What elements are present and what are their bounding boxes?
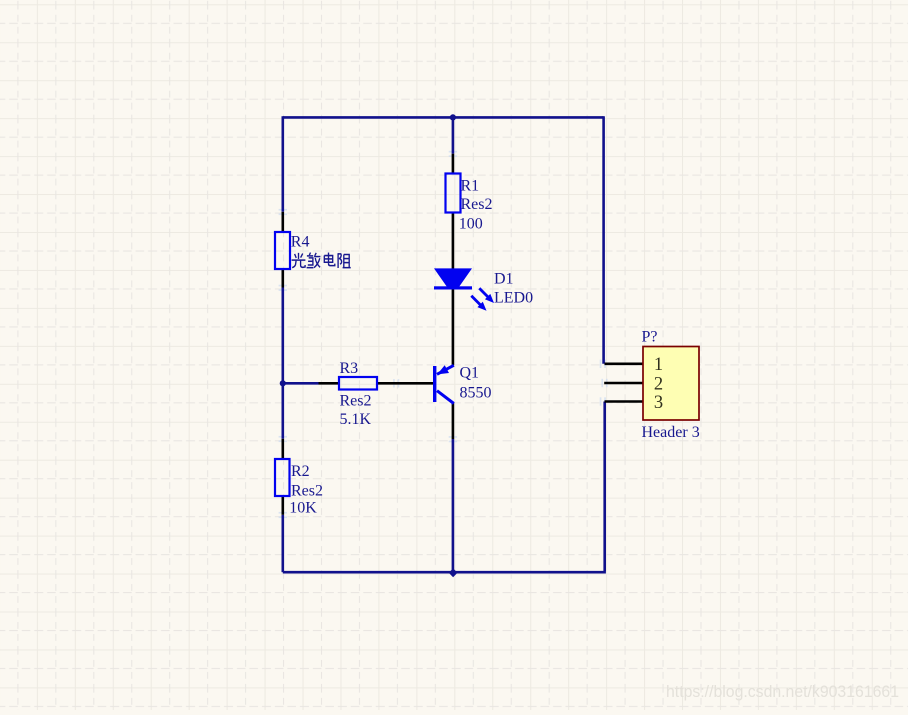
svg-text:LED0: LED0 — [494, 289, 533, 306]
resistor R2 body — [275, 459, 290, 496]
LED D1 light arrow 2 — [471, 296, 486, 311]
pin: R3 left — [319, 382, 340, 385]
svg-text:R4: R4 — [291, 234, 310, 251]
pin: header pin 2 wire — [604, 382, 643, 385]
svg-text:10K: 10K — [289, 500, 317, 517]
svg-text:8550: 8550 — [460, 385, 492, 402]
svg-text:https://blog.csdn.net/k9031616: https://blog.csdn.net/k903161661 — [666, 682, 899, 701]
wire: right upper vertical to header pin 1 — [602, 116, 605, 364]
wire: left vertical upper segment — [281, 116, 284, 212]
pin: header pin 3 wire — [605, 400, 644, 403]
resistor R1 body — [446, 174, 461, 213]
char 光 — [292, 253, 306, 268]
wire: middle vertical top (rail to R1) — [452, 117, 455, 153]
wire: right lower vertical from header pin 3 to bottom rail — [603, 402, 606, 572]
svg-text:P?: P? — [642, 328, 658, 345]
pin: R3 right + Q1 base — [377, 382, 434, 385]
junction dot at top rail / R1 — [450, 114, 456, 120]
LED D1 cathode bar — [434, 286, 472, 289]
pin: header pin 1 wire — [605, 362, 644, 365]
svg-text:D1: D1 — [494, 271, 514, 288]
svg-text:2: 2 — [654, 374, 663, 394]
header P? body — [643, 347, 699, 421]
pin: LED cathode to Q1 emitter — [452, 290, 455, 366]
wire: base branch from left rail to R3 — [283, 382, 319, 385]
svg-text:3: 3 — [654, 393, 663, 413]
wire: top horizontal VCC rail — [283, 116, 604, 119]
pin hotspot markers (faint) — [279, 151, 608, 518]
LED D1 light arrow 1 — [479, 288, 494, 303]
pin: Q1 collector — [452, 403, 455, 439]
svg-text:R2: R2 — [291, 463, 310, 480]
svg-text:1: 1 — [654, 355, 663, 375]
LED D1 triangle — [434, 268, 472, 289]
wire: left vertical middle segment — [281, 288, 284, 439]
pin: R4 bottom — [281, 269, 284, 288]
svg-text:Res2: Res2 — [340, 392, 372, 409]
resistor R4 body (photoresistor) — [275, 232, 290, 269]
wire: left vertical lower segment — [281, 515, 284, 572]
wire: middle vertical bottom (Q1 collector to bottom rail) — [452, 439, 455, 572]
transistor Q1 base bar — [433, 366, 436, 402]
transistor Q1 collector — [437, 391, 454, 404]
pin: R2 top — [281, 439, 284, 459]
char 敏 — [307, 253, 321, 268]
svg-text:Q1: Q1 — [460, 364, 480, 381]
char 电 — [324, 253, 335, 266]
junction dot at bottom rail / collector — [449, 568, 458, 577]
char 阻 — [338, 253, 351, 268]
junction dot at left rail / R3 branch — [280, 380, 286, 386]
svg-text:R1: R1 — [461, 178, 480, 195]
resistor R3 body — [339, 377, 377, 390]
pin: R1 bottom to LED anode — [452, 213, 455, 270]
svg-text:Res2: Res2 — [291, 482, 323, 499]
pin: R1 top — [452, 154, 455, 174]
svg-text:5.1K: 5.1K — [340, 411, 372, 428]
pin: R2 bottom — [281, 496, 284, 515]
svg-text:Header 3: Header 3 — [642, 424, 700, 441]
svg-text:R3: R3 — [340, 360, 359, 377]
svg-text:Res2: Res2 — [461, 196, 493, 213]
pin: R4 top — [281, 212, 284, 232]
wire: bottom horizontal rail — [283, 571, 606, 574]
transistor Q1 emitter with arrow — [437, 365, 454, 374]
svg-text:100: 100 — [459, 215, 483, 232]
label R4 comment (光敏电阻) drawn as paths — [292, 253, 351, 268]
